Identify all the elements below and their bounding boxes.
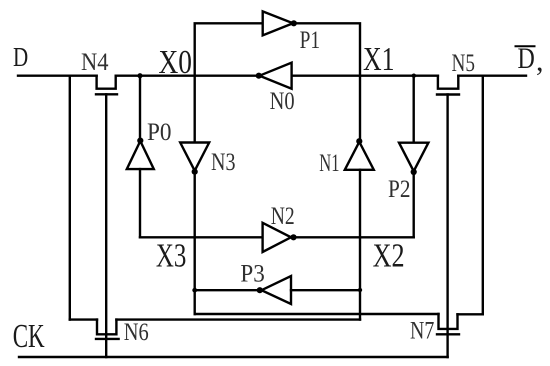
label X2 [373,238,405,275]
transistor N7 [437,314,459,334]
transistor N6 [96,320,119,339]
wire X1 column upper [359,76,361,142]
wire bottom loop row to N7 [195,313,439,315]
svg-text:N5: N5 [452,50,476,77]
wire P0 column lower [139,169,141,237]
svg-text:X0: X0 [159,44,193,81]
wire N6 to X2 column [116,318,360,320]
svg-text:P1: P1 [300,27,321,54]
label N6 [124,319,149,346]
node dot at Dbar wire / P2 column [412,74,416,78]
svg-text:CK: CK [13,318,45,355]
label N1 [319,150,339,177]
svg-text:N6: N6 [124,319,149,346]
wire X3 row [140,236,263,238]
svg-text:N7: N7 [410,318,434,345]
label N0 [270,88,295,115]
label X1 [363,41,395,78]
wire X1/X2 column lower [359,170,361,320]
wire D input to N4 [18,74,97,76]
wire P3 input row [291,289,360,291]
svg-text:N0: N0 [270,88,295,115]
wire CK gate column left (N4/N6 gates) [105,94,107,357]
label P3 [240,261,264,288]
label N4 [81,49,109,76]
svg-text:P2: P2 [388,176,411,203]
svg-text:,: , [536,45,544,78]
wire left rail vertical [69,76,71,320]
transistor N4 [96,76,117,95]
inverter N0 [256,63,292,89]
wire top right segment to X1 column [294,23,360,75]
wire P2 column lower [413,172,415,237]
wire X2 row [294,236,414,238]
wire N5 to Dbar output [458,74,526,76]
wire CK row [19,356,448,358]
inverter N2 [263,223,297,252]
svg-text:P3: P3 [240,261,264,288]
svg-text:X3: X3 [156,238,187,275]
inverter P1 [263,11,297,35]
label Dbar with overbar [516,42,544,78]
node dot P3 wire right junction [358,288,362,292]
wire X0 column upper [193,76,195,143]
wire X0 to N0 input [116,74,257,76]
inverter N3 [180,143,209,175]
label N7 [410,318,434,345]
node dot at D wire / P0 column [137,73,142,78]
wire top feedback (P1 output loop) [195,23,263,75]
label P1 [300,27,321,54]
svg-text:X2: X2 [373,238,405,275]
wire left rail to N6 [70,318,97,320]
label P2 [388,176,411,203]
label N2 [271,203,295,230]
label P0 [147,119,172,146]
node dot P3 wire left junction [192,288,197,293]
wire P0 column upper [139,76,141,140]
label N3 [211,149,236,176]
inverter P0 [127,138,154,170]
svg-text:N1: N1 [319,150,339,177]
inverter P2 [399,143,428,175]
svg-text:X1: X1 [363,41,395,78]
svg-text:P0: P0 [147,119,172,146]
wire P3 output row [195,289,258,291]
svg-text:D: D [13,42,28,72]
inverter P3 [257,276,291,304]
label N5 [452,50,476,77]
wire N0 base to X1 [292,74,438,76]
label D [13,42,28,72]
wire X0/X3 column lower [193,172,195,314]
wire N7 to right rail [458,313,483,315]
wire P2 column upper [413,76,415,143]
wire CK gate column right (N5/N7 gates) [446,95,448,358]
inverter N1 [345,138,374,170]
wire right rail vertical [482,76,484,315]
svg-text:N3: N3 [211,149,236,176]
svg-text:N4: N4 [81,49,109,76]
label CK [13,318,45,355]
svg-text:N2: N2 [271,203,295,230]
transistor N5 [437,76,459,95]
label X0 [159,44,193,81]
label X3 [156,238,187,275]
